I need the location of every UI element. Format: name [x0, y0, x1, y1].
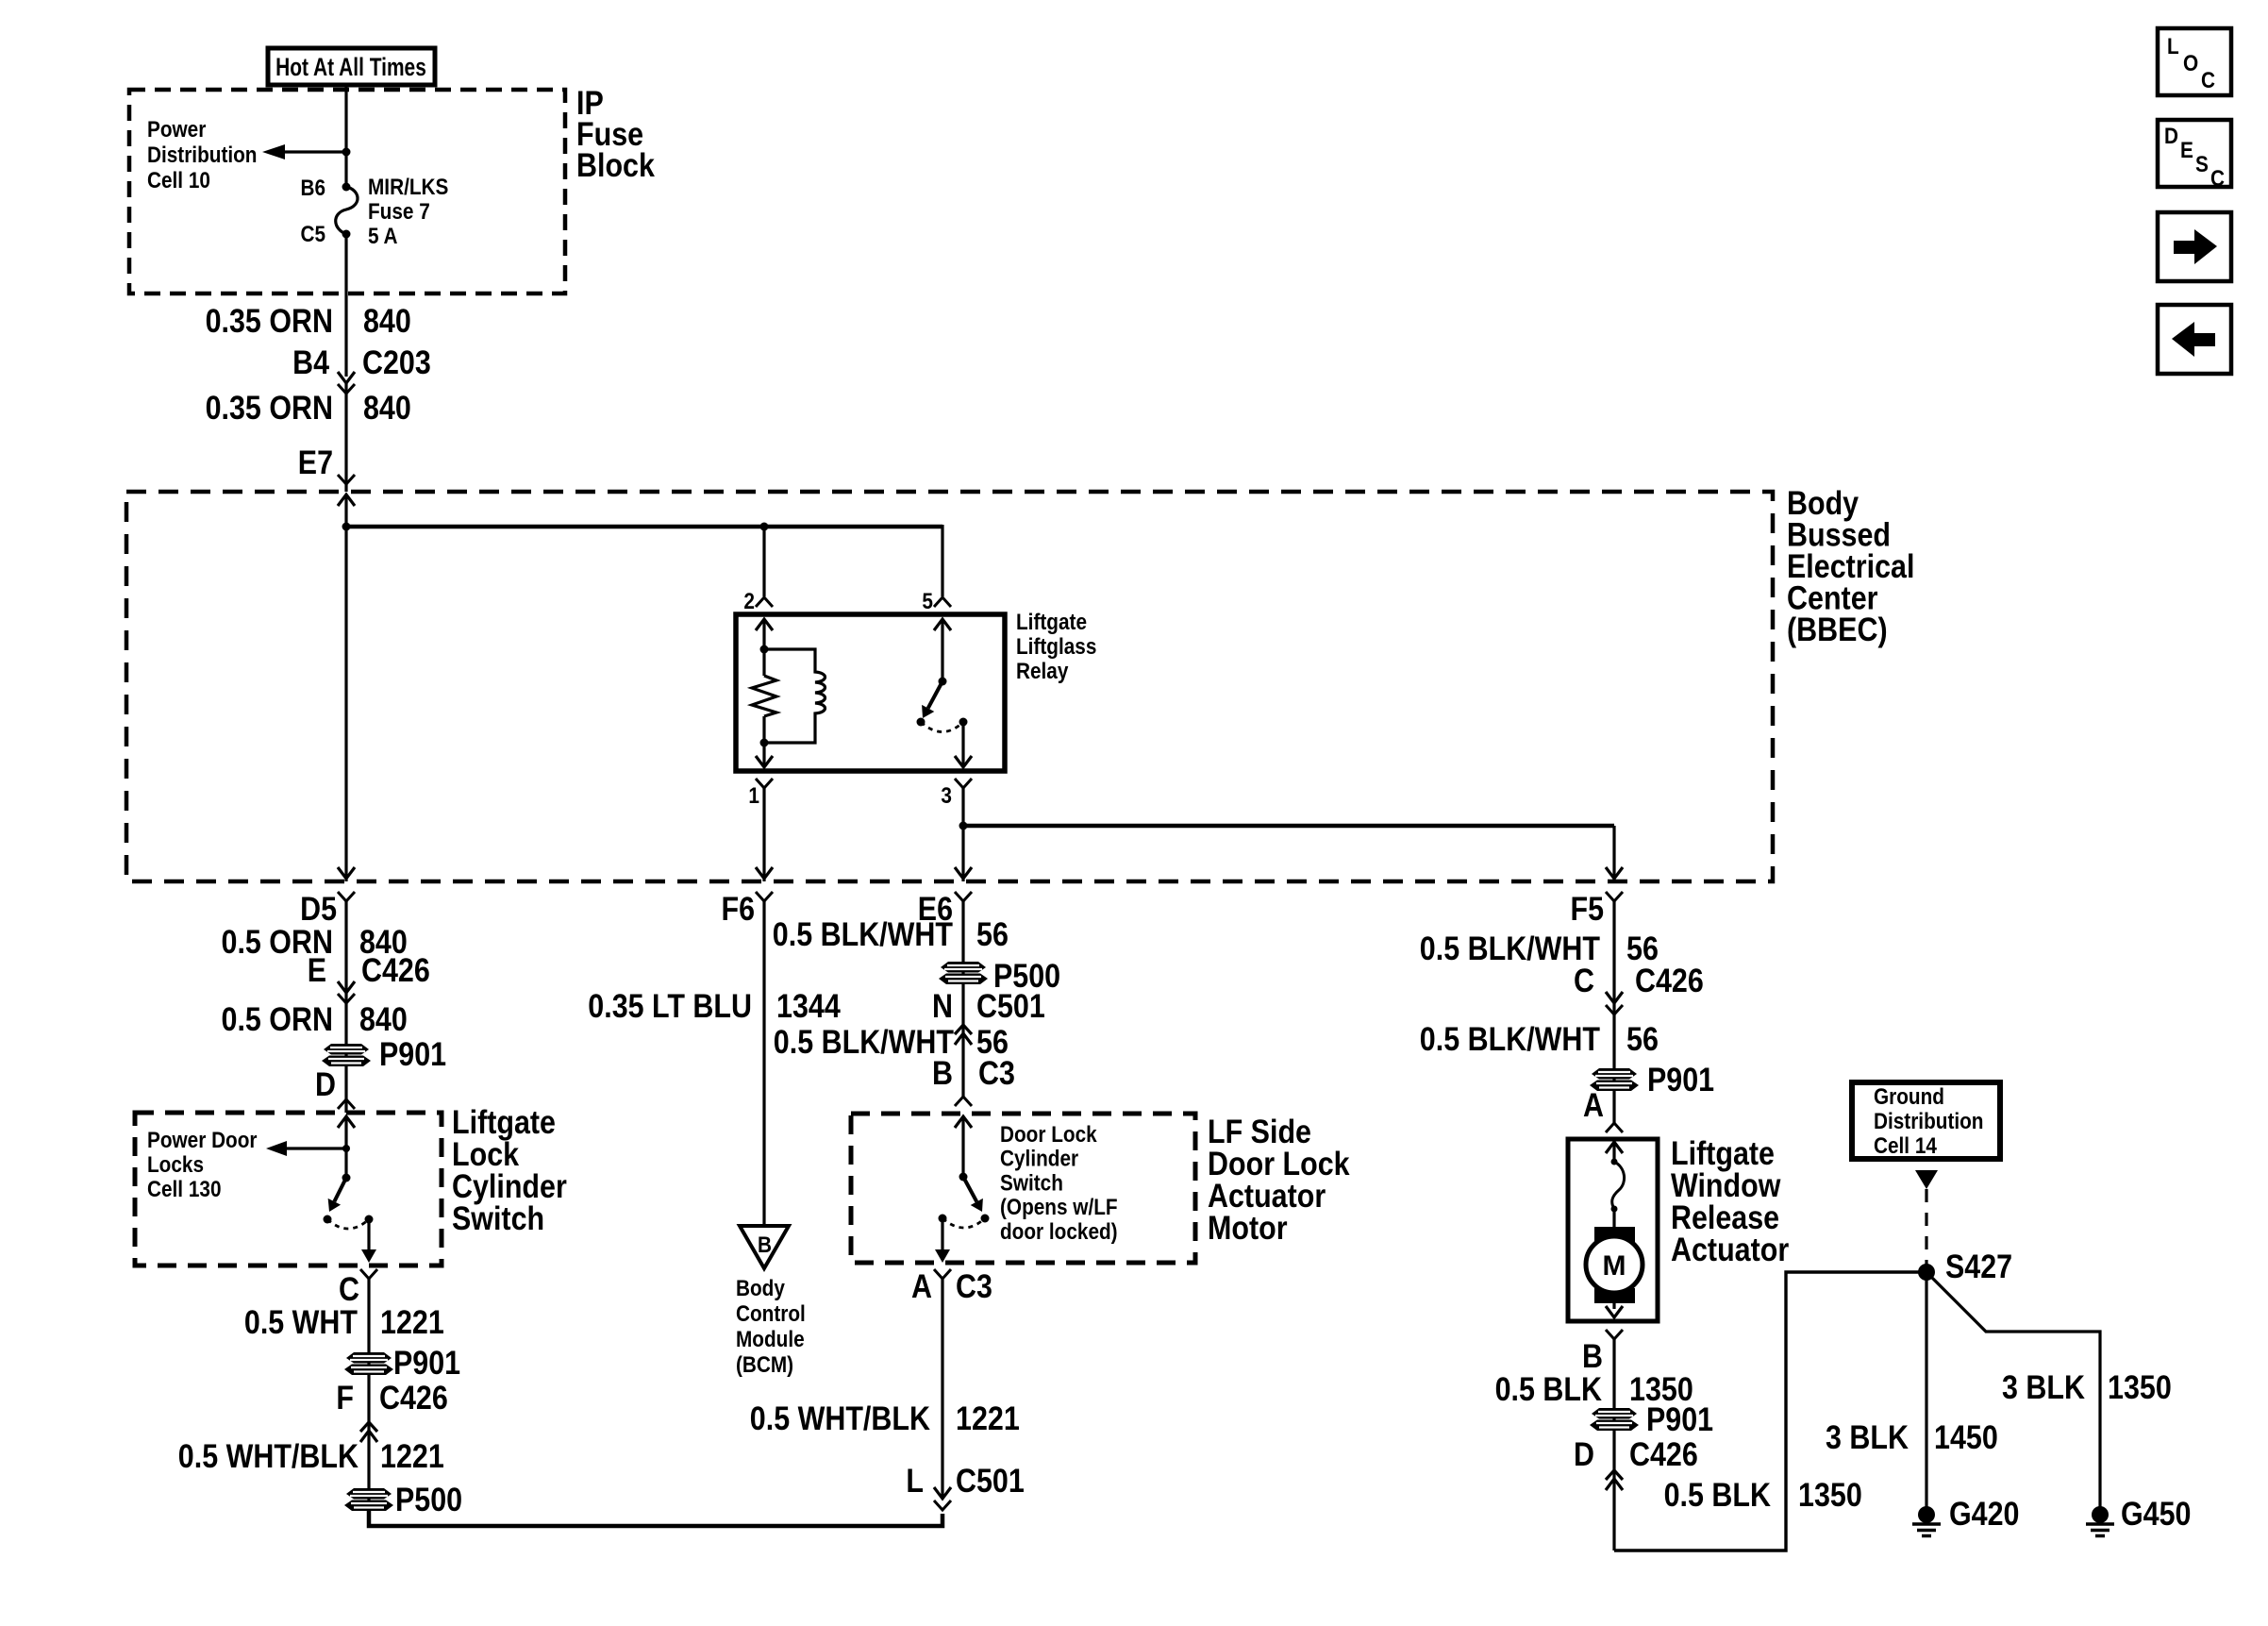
wire switch output down with solid arrow: [941, 1218, 943, 1251]
svg-text:Power Door: Power Door: [147, 1128, 258, 1153]
grommet P500 (bottom left): [344, 1488, 393, 1511]
relay coil bottom node: [760, 739, 769, 747]
svg-text:C203: C203: [362, 344, 431, 381]
svg-text:F5: F5: [1571, 891, 1605, 928]
svg-text:Cylinder: Cylinder: [1000, 1147, 1078, 1172]
door lock switch common node: [959, 1173, 968, 1182]
wire pin B down to P901: [1612, 1339, 1615, 1551]
svg-text:C426: C426: [361, 952, 430, 989]
connector half below switch pin C: [360, 1269, 377, 1279]
svg-text:0.5 BLK/WHT: 0.5 BLK/WHT: [1420, 1021, 1600, 1058]
BCM terminal triangle B: [740, 1226, 789, 1268]
door lock switch contact right: [981, 1215, 990, 1223]
node junction to Power Door Locks: [342, 1145, 350, 1152]
door lock switch blade: [963, 1177, 976, 1201]
svg-text:P901: P901: [379, 1036, 446, 1073]
fuse MIR/LKS Fuse 7 5A symbol: [336, 187, 358, 234]
wire arrow to Power Distribution Cell 10: [285, 150, 346, 153]
wire entering BBEC at E7 with arrow: [338, 495, 355, 506]
relay switch common node: [939, 678, 947, 686]
in-line connector C203: [338, 372, 355, 383]
svg-text:1344: 1344: [776, 988, 841, 1025]
svg-text:Door Lock: Door Lock: [1000, 1122, 1097, 1148]
grommet P901 (left): [322, 1044, 371, 1066]
switch entry arrow (pin D): [338, 1116, 355, 1128]
svg-text:Hot At All Times: Hot At All Times: [275, 53, 426, 81]
wire bus down to relay pin 2: [762, 527, 765, 596]
relay switch contact (NO) to pin 3: [959, 718, 968, 727]
svg-text:C3: C3: [956, 1268, 992, 1305]
connector half at actuator pin A: [1606, 1123, 1623, 1132]
svg-text:1221: 1221: [380, 1304, 444, 1341]
ground G420: [1912, 1506, 1941, 1536]
relay coil exit arrow to pin 1: [762, 743, 765, 767]
bottom wire from P500 to C501-L: [369, 1510, 942, 1526]
fuse terminal C5: [342, 230, 351, 239]
relay coil top node: [760, 645, 769, 654]
svg-text:C426: C426: [1629, 1436, 1698, 1473]
actuator entry arrow (pin A): [1606, 1142, 1623, 1153]
svg-text:C5: C5: [301, 222, 326, 247]
wire F5 down to actuator: [1612, 901, 1615, 1003]
connector half at relay pin 2: [756, 597, 773, 607]
in-line connector C426 (D) pointing up: [1606, 1470, 1623, 1480]
svg-text:M: M: [1603, 1250, 1626, 1282]
in-line connector C426 (C) pointing down: [1606, 992, 1623, 1003]
power source label "Hot At All Times": [268, 48, 435, 85]
svg-text:Ground: Ground: [1874, 1084, 1944, 1110]
wire C426 down to P901 grommet: [344, 993, 347, 1113]
svg-text:Switch: Switch: [1000, 1170, 1063, 1196]
relay switch contact (NC): [917, 718, 926, 727]
wire bus corner down to relay pin 5: [941, 525, 943, 596]
svg-text:Fuse 7: Fuse 7: [368, 199, 430, 225]
svg-text:B: B: [1582, 1338, 1603, 1375]
wire C426 down to P901 (right): [1612, 1003, 1615, 1123]
liftgate key switch blade: [334, 1178, 346, 1201]
liftgate key switch common node: [342, 1174, 351, 1182]
IP Fuse Block dashed box: [129, 90, 565, 293]
svg-text:0.5 BLK/WHT: 0.5 BLK/WHT: [774, 1024, 954, 1061]
wire contact down to relay pin 3 with arrow: [961, 722, 964, 767]
svg-text:3: 3: [941, 783, 952, 809]
svg-text:P901: P901: [1647, 1062, 1714, 1098]
svg-text:B6: B6: [301, 176, 326, 201]
wire S427 down to G420: [1925, 1272, 1927, 1515]
connector half below BBEC at D5: [338, 892, 355, 901]
door lock switch dashed throw arc: [942, 1218, 985, 1228]
door lock switch contact left: [939, 1215, 947, 1223]
svg-text:840: 840: [363, 390, 411, 427]
connector half below BBEC at F6: [756, 892, 773, 901]
svg-text:0.35 LT BLU: 0.35 LT BLU: [588, 988, 752, 1025]
wire pin A down to C501-L: [941, 1279, 943, 1499]
motor M (liftgate window release): [1586, 1227, 1643, 1303]
svg-text:Actuator: Actuator: [1671, 1232, 1790, 1268]
connector half below actuator pin B: [1606, 1330, 1623, 1339]
next-page arrow icon box: [2158, 212, 2231, 281]
svg-text:Motor: Motor: [1208, 1210, 1288, 1247]
wire arrow to Power Door Locks Cell 130: [287, 1147, 346, 1149]
svg-text:A: A: [1583, 1087, 1604, 1124]
connector half below BBEC at E6: [955, 892, 972, 901]
Liftgate Lock Cylinder Switch dashed box: [135, 1113, 442, 1266]
svg-text:C: C: [2210, 166, 2225, 192]
wire F5 drop down to BBEC border: [1612, 826, 1615, 881]
svg-text:D: D: [2164, 124, 2178, 149]
svg-text:door locked): door locked): [1000, 1219, 1118, 1245]
svg-text:Cell 14: Cell 14: [1874, 1133, 1937, 1159]
in-line connector C426 (E): [338, 981, 355, 993]
svg-text:Block: Block: [576, 147, 655, 184]
connector half below BBEC at F5: [1606, 892, 1623, 901]
svg-text:(Opens w/LF: (Opens w/LF: [1000, 1195, 1118, 1220]
grommet P901 (bottom right): [1590, 1408, 1639, 1431]
svg-text:E: E: [2180, 138, 2193, 163]
svg-text:C426: C426: [379, 1380, 448, 1416]
node junction to relay pin 2: [760, 523, 769, 531]
svg-text:C3: C3: [978, 1055, 1015, 1092]
actuator internal switch bottom node: [1611, 1206, 1618, 1213]
svg-text:C426: C426: [1635, 963, 1704, 999]
grommet P901 (right): [1590, 1068, 1639, 1091]
connector half at relay pin 5: [934, 597, 951, 607]
svg-text:0.5 WHT/BLK: 0.5 WHT/BLK: [750, 1400, 930, 1437]
wire relay pin 1 down to BBEC border F6: [762, 788, 765, 881]
Liftgate Liftglass Relay box: [736, 614, 1005, 771]
svg-text:(BBEC): (BBEC): [1787, 612, 1888, 648]
svg-text:Body: Body: [736, 1276, 785, 1301]
in-line connector C501 (L) pointing down: [934, 1487, 951, 1499]
wire F6 down to BCM: [762, 901, 765, 1226]
node junction on pin 3 wire to F5 branch: [959, 822, 968, 830]
liftgate key switch contact left: [324, 1215, 332, 1224]
svg-text:L: L: [906, 1463, 924, 1500]
svg-text:C: C: [1574, 963, 1594, 999]
relay switch blade: [928, 681, 942, 708]
svg-text:1350: 1350: [1798, 1477, 1862, 1514]
svg-text:Cell 10: Cell 10: [147, 168, 210, 193]
in-line connector C426 (F) pointing up: [360, 1422, 377, 1432]
svg-text:0.5 BLK: 0.5 BLK: [1495, 1371, 1602, 1408]
Liftgate Window Release Actuator box: [1568, 1139, 1658, 1321]
node: BBEC power bus junction: [342, 523, 351, 531]
svg-text:L: L: [2167, 34, 2179, 59]
svg-text:N: N: [932, 988, 953, 1025]
svg-text:E: E: [308, 952, 326, 989]
LF door lock cylinder switch dashed box: [851, 1114, 1195, 1263]
svg-text:840: 840: [363, 303, 411, 340]
wire switch output down with solid arrow: [367, 1219, 370, 1251]
svg-text:0.35 ORN: 0.35 ORN: [206, 390, 333, 427]
wire from C426-D to splice S427: [1614, 1272, 1926, 1551]
svg-text:S: S: [2195, 152, 2209, 177]
bus wire across BBEC top: [346, 525, 942, 529]
door lock switch entry arrow (pin B): [955, 1116, 972, 1128]
svg-text:P901: P901: [1646, 1401, 1713, 1438]
svg-text:A: A: [911, 1268, 932, 1305]
svg-text:S427: S427: [1945, 1249, 2012, 1285]
svg-text:5 A: 5 A: [368, 224, 398, 249]
connector half at switch pin D: [338, 1099, 355, 1109]
svg-text:2: 2: [743, 589, 755, 614]
wire S427 diagonal to G450: [1926, 1272, 2100, 1515]
svg-text:Power: Power: [147, 117, 206, 142]
wire E6 down to door lock switch: [961, 901, 964, 1098]
svg-text:56: 56: [976, 916, 1009, 953]
bus wire to F5 drop: [963, 824, 1614, 829]
svg-text:B: B: [758, 1232, 772, 1258]
svg-text:1221: 1221: [956, 1400, 1020, 1437]
svg-text:3 BLK: 3 BLK: [1826, 1419, 1909, 1456]
svg-text:C501: C501: [976, 988, 1045, 1025]
splice S427: [1918, 1264, 1935, 1281]
svg-text:C: C: [339, 1271, 359, 1308]
svg-text:Switch: Switch: [452, 1200, 544, 1237]
relay coil branch entry arrow pin 2: [756, 619, 773, 630]
connector half below relay pin 1: [756, 779, 773, 788]
svg-text:C501: C501: [956, 1463, 1025, 1500]
connector half at door-lock switch pin B: [955, 1097, 972, 1106]
LOC icon box: [2158, 28, 2231, 95]
fuse terminal B6: [342, 183, 351, 192]
svg-text:P500: P500: [395, 1482, 462, 1518]
svg-text:D: D: [1574, 1436, 1594, 1473]
relay switch dashed throw arc: [921, 722, 963, 732]
svg-text:G450: G450: [2121, 1496, 2192, 1533]
svg-text:0.5 BLK/WHT: 0.5 BLK/WHT: [773, 916, 953, 953]
grommet P901 (lower left): [344, 1352, 393, 1375]
motor exit arrow to pin B: [1612, 1303, 1615, 1309]
connector half at E7: [338, 475, 355, 484]
svg-text:C: C: [2201, 68, 2215, 93]
svg-text:Liftglass: Liftglass: [1016, 634, 1096, 660]
svg-text:1: 1: [748, 783, 759, 809]
DESC icon box: [2158, 120, 2231, 187]
svg-text:Control: Control: [736, 1301, 806, 1327]
svg-text:D5: D5: [300, 891, 337, 928]
svg-text:F6: F6: [722, 891, 756, 928]
relay resistor R (coil suppression): [762, 649, 765, 676]
grommet P500 (center): [939, 962, 988, 984]
wire connector C203 down to BBEC pin E7: [344, 383, 347, 492]
svg-text:P901: P901: [393, 1345, 460, 1382]
svg-text:0.35 ORN: 0.35 ORN: [206, 303, 333, 340]
wire to motor: [1612, 1209, 1615, 1229]
svg-text:1450: 1450: [1934, 1419, 1998, 1456]
svg-text:56: 56: [1626, 1021, 1659, 1058]
svg-text:D: D: [315, 1066, 336, 1103]
wire D5 exit arrow at BBEC bottom: [338, 867, 355, 879]
in-line connector C501 (N) pointing up: [955, 1025, 972, 1034]
svg-text:Liftgate: Liftgate: [1016, 610, 1087, 635]
svg-text:E7: E7: [298, 444, 333, 481]
wire D5 to connector C426: [344, 901, 347, 993]
Body Bussed Electrical Center (BBEC) dashed box: [126, 492, 1773, 881]
svg-text:G420: G420: [1949, 1496, 2020, 1533]
liftgate key switch dashed throw arc: [327, 1219, 369, 1229]
svg-text:1350: 1350: [2108, 1369, 2172, 1406]
svg-text:5: 5: [922, 589, 933, 614]
wire relay pin 3 down to BBEC border E6: [961, 788, 964, 881]
wire from Hot At All Times into fuse block: [344, 85, 347, 187]
svg-text:B4: B4: [292, 344, 329, 381]
svg-text:0.5 WHT: 0.5 WHT: [244, 1304, 358, 1341]
svg-text:F: F: [336, 1380, 354, 1416]
svg-text:O: O: [2183, 51, 2198, 76]
ground distribution pointer triangle: [1915, 1170, 1938, 1189]
previous-page arrow icon box: [2158, 305, 2231, 374]
wire fuse C5 down to connector C203: [344, 234, 347, 377]
wire pin C down to P901: [367, 1279, 370, 1526]
svg-text:B: B: [932, 1055, 953, 1092]
relay switch entry arrow pin 5: [934, 619, 951, 630]
Ground Distribution Cell 14 box: [1852, 1082, 2000, 1159]
svg-text:0.5 ORN: 0.5 ORN: [222, 1001, 334, 1038]
ground G450: [2086, 1506, 2114, 1536]
relay coil L (winding): [764, 649, 825, 743]
connector half below switch pin A: [934, 1269, 951, 1279]
connector half below relay pin 3: [955, 779, 972, 788]
dashed wire to splice S427: [1925, 1189, 1927, 1265]
actuator internal switch S-curve: [1612, 1162, 1625, 1209]
svg-text:840: 840: [359, 1001, 408, 1038]
node junction to Power Distribution: [342, 148, 351, 157]
svg-text:Cell 130: Cell 130: [147, 1177, 222, 1202]
svg-text:3 BLK: 3 BLK: [2002, 1369, 2085, 1406]
svg-text:Distribution: Distribution: [147, 142, 258, 168]
svg-text:Relay: Relay: [1016, 659, 1069, 684]
liftgate key switch contact right: [365, 1215, 374, 1224]
svg-text:Module: Module: [736, 1327, 805, 1352]
svg-text:Locks: Locks: [147, 1152, 204, 1178]
svg-text:Distribution: Distribution: [1874, 1109, 1984, 1134]
svg-text:0.5 WHT/BLK: 0.5 WHT/BLK: [178, 1438, 359, 1475]
svg-text:1221: 1221: [380, 1438, 444, 1475]
svg-text:(BCM): (BCM): [736, 1352, 793, 1378]
svg-text:0.5 BLK: 0.5 BLK: [1664, 1477, 1771, 1514]
svg-text:MIR/LKS: MIR/LKS: [368, 175, 448, 200]
actuator internal switch top node: [1611, 1159, 1618, 1165]
